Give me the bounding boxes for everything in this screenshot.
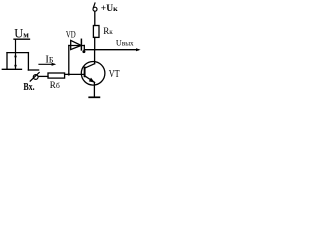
power terminal +Uk (connector circle) [93, 3, 97, 11]
node: diode cathode / output line junction dot [82, 50, 85, 53]
svg-text:Uм: Uм [14, 26, 29, 40]
transistor VT [81, 62, 105, 86]
wire Rb to transistor base [65, 73, 85, 75]
svg-text:Вх.: Вх. [23, 82, 35, 93]
node: diode anode to base wire [68, 73, 70, 75]
diode VD anode leg [68, 46, 70, 75]
svg-text:Rб: Rб [50, 80, 60, 90]
wire input terminal to Rb [38, 75, 48, 77]
current arrow Ib [39, 63, 56, 66]
resistor Rb [48, 73, 65, 78]
wire collector node to transistor collector [94, 50, 96, 64]
wire Rk to collector node [94, 37, 96, 49]
svg-text:VD: VD [66, 29, 76, 40]
input pulse waveform top [7, 52, 28, 54]
ground [89, 96, 99, 98]
wire emitter to ground [93, 82, 95, 97]
svg-text:VT: VT [109, 69, 120, 80]
wire pulse tail toward input terminal [28, 69, 38, 71]
input pulse falling edge [27, 53, 29, 70]
diode VD [69, 39, 85, 50]
resistor Rk [93, 26, 99, 38]
input terminal (connector circle) [30, 73, 39, 82]
input pulse baseline axis [2, 68, 21, 70]
label Um (input pulse amplitude) [14, 26, 30, 40]
diode VD cathode leg to output node [83, 46, 85, 50]
amplitude arrow (double-headed leader from Um) [14, 39, 17, 69]
input pulse rising edge [6, 53, 8, 70]
svg-text:+Uк: +Uк [101, 4, 118, 14]
svg-text:Uвых: Uвых [116, 39, 134, 48]
output line Uvykh with arrow [84, 48, 140, 51]
svg-text:Rк: Rк [103, 26, 113, 36]
wire +Uk terminal to Rk [94, 11, 96, 25]
